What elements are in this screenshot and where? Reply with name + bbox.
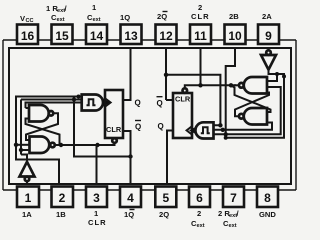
svg-text:CLR: CLR [88, 218, 107, 227]
svg-text:CLR: CLR [191, 12, 210, 21]
svg-text:CLR: CLR [175, 95, 191, 104]
wire G4 upper input to cross-couple diagonal to G3 output junction [231, 85, 271, 112]
pin 3 label 1 CLR [88, 209, 107, 227]
pin 11 box [190, 25, 211, 45]
svg-text:1A: 1A [22, 210, 32, 219]
node junction diagonal/G2 output [59, 143, 63, 147]
AND U2 edge pulse symbol [87, 99, 96, 105]
wire latch G3 top input drop from wrap line [267, 74, 277, 81]
node junction 2B drop/wrap line [224, 136, 228, 140]
svg-text:7: 7 [230, 191, 237, 205]
wire inverter U1 output to vertical B [21, 155, 27, 162]
AND U5 edge pulse symbol [201, 127, 210, 133]
flip-flop U6 clear input bubble [183, 88, 188, 93]
svg-text:2: 2 [197, 209, 201, 218]
pin 15 label 1 Rext/Cext [46, 4, 68, 23]
pin 7 box [223, 187, 244, 208]
pin 3 box [86, 187, 107, 208]
node junction pin11 riser/CLR2 line [198, 83, 202, 87]
AND gate U5 output arrow into flip-flop [189, 127, 196, 135]
pin 9 box [258, 25, 279, 45]
svg-text:1: 1 [94, 209, 99, 218]
wire Q output 2 to pin 5 riser [167, 131, 173, 185]
node junction on AND2 middle input [221, 128, 225, 132]
wire net 2CLR: G3 output line to flip-flop clear bubble riser [185, 85, 236, 88]
pin 13 box [121, 25, 142, 45]
svg-text:12: 12 [159, 29, 173, 43]
node junction feedback/AND input [72, 97, 76, 101]
wire net B-inverted: vertical B from AND middle input down to latch [21, 100, 82, 155]
label Q-bar output 1 [135, 121, 141, 132]
package lead-frame rail right wrap [295, 40, 297, 190]
pin 14 label 1 Cext [87, 3, 101, 23]
pin 16 box [17, 25, 38, 45]
pin 14 box [86, 25, 107, 45]
wire G1 output to cross-couple diagonal [26, 113, 58, 140]
wire pin 9 riser 2A [268, 48, 270, 50]
wire net 1B: pin 2 riser, run to vertical A, A up to AND input [16, 97, 82, 185]
pin 4 label 1Q-bar [124, 210, 135, 220]
svg-text:Q: Q [157, 99, 163, 108]
svg-text:Q: Q [135, 99, 141, 108]
wire Q-bar output to pin 4 riser [123, 131, 131, 184]
inverter U1 (1A input) [20, 162, 35, 177]
svg-text:CC: CC [26, 18, 34, 24]
svg-text:2B: 2B [229, 12, 239, 21]
svg-text:8: 8 [264, 191, 271, 205]
node junction wrap/G3 top input [275, 72, 279, 76]
svg-text:15: 15 [55, 29, 69, 43]
node junction 2Q-bar riser/feedback [164, 73, 168, 77]
svg-text:ext: ext [57, 17, 65, 23]
node junction pin3 riser/CLR line [95, 143, 99, 147]
node junction feedback/AND2 top input [218, 123, 222, 127]
svg-text:6: 6 [196, 191, 203, 205]
svg-text:2A: 2A [262, 12, 272, 21]
svg-text:/: / [237, 209, 240, 218]
svg-text:3: 3 [93, 191, 100, 205]
flip-flop U3 trigger chevron [105, 98, 111, 106]
wire G3 lower input from cross-couple diagonal [235, 93, 269, 117]
svg-text:9: 9 [265, 29, 272, 43]
node junction diagonal/G3 output [229, 83, 233, 87]
svg-text:5: 5 [162, 191, 169, 205]
wire Q output to pin 13 riser [123, 48, 131, 100]
wire net 1Q-bar feedback: vertical from AND middle input down to cross line [74, 100, 131, 157]
wire Q-bar output 2 to pin 12 [166, 99, 173, 101]
node junction feedback/pin4 riser [128, 154, 132, 158]
label Q-bar output 2 [157, 97, 163, 108]
inverter U4 input bubble [266, 50, 271, 55]
wire inverter U4 output wrap line around latch [226, 70, 284, 138]
wire pin 3 riser 1CLR [96, 145, 98, 184]
NAND G3 output bubble [239, 83, 244, 88]
NAND gate G3 (latch top, mirrored) [244, 77, 267, 94]
node junction B-inverted/G2 input [19, 148, 23, 152]
svg-text:Q: Q [135, 123, 141, 132]
pin 1 box [17, 187, 39, 208]
NAND G4 output bubble [239, 114, 244, 119]
package lead-frame rail bottom [3, 189, 296, 191]
pin 5 box [155, 187, 176, 208]
inverter U1 input bubble [25, 177, 30, 182]
pin 6 box [189, 187, 210, 208]
wire net 2CLR: pin 11 riser [200, 48, 202, 85]
svg-text:GND: GND [259, 210, 276, 219]
pin 7 label 2 Rext/Cext [218, 209, 240, 229]
package lead-frame rail left wrap [2, 40, 4, 190]
svg-text:11: 11 [194, 29, 207, 43]
NAND G1 output bubble [49, 111, 54, 116]
NAND gate G1 (latch top) [29, 105, 49, 122]
pin 6 label 2 Cext [191, 209, 205, 229]
svg-text:1: 1 [25, 191, 32, 205]
svg-text:1Q: 1Q [120, 13, 130, 22]
svg-text:CLR: CLR [106, 125, 122, 134]
pin 11 label 2 CLR [191, 3, 210, 21]
svg-text:2: 2 [59, 191, 66, 205]
pin 8 box [257, 187, 278, 208]
flip-flop U3 box [105, 90, 123, 138]
svg-text:2Q: 2Q [159, 210, 169, 219]
wire AND2 bottom input line to latch G3 middle input [214, 87, 281, 134]
svg-text:ext: ext [197, 223, 205, 229]
svg-text:13: 13 [124, 29, 138, 43]
svg-text:2Q: 2Q [157, 12, 167, 21]
wire net 1CLR: G2 output line to flip-flop clear bubble riser [55, 143, 115, 145]
wire pin 1 riser 1A [26, 181, 28, 184]
package lead-frame rail top [3, 39, 296, 41]
pin 12 label 2Q-bar [157, 12, 168, 22]
pin 10 box [225, 25, 246, 45]
wire net B-inverted stub into latch G2 bottom input [21, 149, 30, 151]
flip-flop U6 box [173, 93, 192, 138]
AND gate U2 with edge trigger [82, 95, 103, 111]
svg-text:/: / [65, 4, 68, 13]
pin 16 label VCC [20, 14, 34, 24]
wire G3 output line to junction [234, 84, 239, 86]
NAND gate G4 (latch bottom, mirrored) [244, 108, 267, 125]
svg-text:1Q: 1Q [124, 210, 134, 219]
node junction 2B drop/AND2 bottom input line [224, 132, 228, 136]
wire G1 lower input from cross-couple diagonal [26, 119, 60, 146]
wire net 2Q-bar: pin 12 riser and feedback line to AND input [166, 48, 220, 125]
svg-text:1B: 1B [56, 210, 66, 219]
IC body outline [9, 48, 291, 184]
svg-text:ext: ext [229, 223, 237, 229]
inverter U4 (2A input) [261, 55, 276, 70]
pin 12 box [156, 25, 177, 45]
wire net 2B: pin 10 riser with jog, drop across AND input lines [226, 48, 235, 138]
flip-flop U6 trigger chevron [187, 126, 192, 134]
AND U2 output arrow into flip-flop [103, 99, 110, 107]
wire net 1B stub into latch G2 middle input [16, 144, 30, 146]
wire net L3: corner into AND bottom input and G1 top input [26, 103, 82, 109]
AND gate U5 with edge trigger (mirrored) [195, 122, 213, 138]
NAND gate G2 (latch bottom) [30, 137, 50, 154]
pin 4 box [120, 187, 141, 208]
svg-text:1: 1 [92, 3, 97, 12]
pin 2 box [52, 187, 74, 208]
node junction on net 1B line [77, 95, 81, 99]
wire AND2 middle input line to latch G4 lower input [214, 123, 273, 130]
svg-text:ext: ext [93, 17, 101, 23]
svg-text:10: 10 [228, 29, 242, 43]
flip-flop U3 clear input bubble [112, 138, 117, 143]
svg-text:Q: Q [158, 122, 164, 131]
svg-text:4: 4 [127, 191, 134, 205]
NAND G2 output bubble [50, 143, 55, 148]
node junction 1B/G2 input [14, 143, 18, 147]
svg-text:16: 16 [21, 29, 35, 43]
pin 15 box [52, 25, 73, 45]
svg-text:2: 2 [198, 3, 202, 12]
svg-text:14: 14 [90, 29, 104, 43]
